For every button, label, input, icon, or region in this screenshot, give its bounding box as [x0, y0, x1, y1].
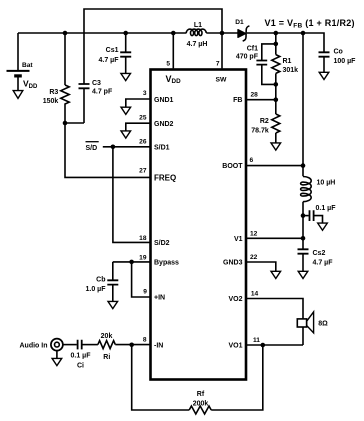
- wire R1 top stub: [275, 33, 277, 55]
- svg-text:18: 18: [139, 235, 147, 242]
- svg-text:9: 9: [143, 289, 147, 296]
- capacitor Cs2: [298, 238, 334, 271]
- svg-text:L1: L1: [194, 22, 202, 29]
- wire pin5 VDD stub: [172, 33, 174, 68]
- svg-text:200k: 200k: [193, 401, 209, 408]
- svg-text:Cb: Cb: [96, 277, 105, 284]
- svg-text:4.7 µF: 4.7 µF: [313, 259, 334, 266]
- wire VDD rail: [18, 32, 187, 34]
- svg-text:Audio In: Audio In: [20, 342, 48, 349]
- svg-text:11: 11: [253, 337, 260, 344]
- svg-text:Cs2: Cs2: [313, 250, 326, 257]
- resistor Rf: [189, 391, 211, 414]
- IC U1: [151, 70, 247, 380]
- wire battery drop: [17, 33, 19, 70]
- svg-text:301k: 301k: [283, 67, 299, 74]
- svg-text:100 µF: 100 µF: [334, 58, 357, 65]
- wire BOOT: [246, 165, 303, 167]
- capacitor Co: [319, 48, 357, 72]
- resistor R3: [43, 33, 69, 123]
- wire -IN pin: [115, 344, 150, 346]
- wire FB: [246, 99, 276, 101]
- svg-text:-IN: -IN: [154, 343, 163, 350]
- svg-text:V1 = VFB (1 + R1/R2): V1 = VFB (1 + R1/R2): [265, 18, 355, 30]
- capacitor C4 0.1uF: [303, 205, 336, 223]
- svg-text:+IN: +IN: [154, 295, 165, 302]
- wire feedback bottom: [132, 345, 263, 410]
- wire S/D1 to S/D2: [113, 147, 151, 243]
- ground below Cs1: [121, 73, 131, 80]
- svg-text:VO1: VO1: [228, 343, 242, 350]
- supply VDD arrow: [13, 79, 38, 99]
- wire GND1 pin: [126, 99, 151, 107]
- wire GND2 pin: [126, 123, 151, 131]
- resistor Ri: [98, 333, 115, 361]
- svg-text:FB: FB: [233, 97, 242, 104]
- svg-text:S/D1: S/D1: [154, 144, 170, 151]
- svg-text:8: 8: [143, 336, 147, 343]
- inductor L1: [186, 22, 238, 48]
- wire S/D1 pin: [103, 146, 151, 148]
- svg-text:8Ω: 8Ω: [318, 321, 328, 328]
- svg-text:26: 26: [139, 138, 147, 145]
- svg-text:4.7 pF: 4.7 pF: [92, 89, 113, 96]
- svg-text:R3: R3: [49, 89, 58, 96]
- svg-text:Cs1: Cs1: [106, 47, 119, 54]
- capacitor C3: [65, 80, 113, 123]
- svg-text:S/D: S/D: [86, 145, 98, 152]
- svg-text:0.1 µF: 0.1 µF: [316, 205, 337, 212]
- resistor R2: [251, 100, 280, 143]
- wire V1 pin: [246, 237, 303, 239]
- svg-text:22: 22: [250, 254, 258, 261]
- svg-text:FREQ: FREQ: [154, 173, 176, 182]
- svg-text:Bypass: Bypass: [154, 259, 179, 266]
- svg-text:28: 28: [251, 92, 259, 99]
- wire below L2: [302, 202, 304, 239]
- ground right of C4: [318, 223, 328, 230]
- junction dots: [63, 31, 68, 36]
- svg-text:R2: R2: [260, 118, 269, 125]
- svg-text:VO2: VO2: [228, 296, 242, 303]
- svg-text:4.7 µF: 4.7 µF: [99, 57, 120, 64]
- svg-text:0.1 µF: 0.1 µF: [71, 353, 92, 360]
- node S/D label: [86, 142, 99, 153]
- capacitor Cb: [86, 262, 119, 302]
- wire +IN pin: [132, 262, 151, 297]
- svg-text:Ci: Ci: [77, 362, 84, 369]
- inductor L2 10uH: [301, 177, 336, 202]
- svg-text:25: 25: [139, 115, 147, 122]
- svg-text:19: 19: [139, 254, 147, 261]
- svg-text:1.0 µF: 1.0 µF: [86, 286, 107, 293]
- svg-text:GND3: GND3: [223, 259, 243, 266]
- wire pin7 SW stub: [221, 33, 223, 68]
- svg-text:20k: 20k: [101, 333, 113, 340]
- svg-text:6: 6: [250, 157, 254, 164]
- resistor R1: [272, 55, 298, 100]
- wire VO2: [246, 299, 303, 346]
- svg-text:12: 12: [250, 230, 258, 237]
- wire output node: [247, 33, 324, 52]
- svg-text:C3: C3: [92, 80, 101, 87]
- svg-text:GND1: GND1: [154, 97, 174, 104]
- svg-text:Co: Co: [334, 48, 343, 55]
- diode D1 (Schottky): [235, 19, 249, 41]
- svg-text:7: 7: [216, 61, 220, 68]
- svg-text:Ri: Ri: [103, 354, 110, 361]
- svg-text:Rf: Rf: [197, 391, 205, 398]
- svg-text:470 pF: 470 pF: [236, 53, 259, 60]
- capacitor Cs1: [99, 33, 132, 73]
- svg-text:3: 3: [143, 90, 147, 97]
- capacitor Ci: [63, 340, 98, 370]
- svg-text:14: 14: [251, 291, 259, 298]
- svg-text:27: 27: [139, 168, 147, 175]
- speaker LS1: [297, 312, 328, 333]
- svg-text:SW: SW: [216, 77, 228, 84]
- ground below Co: [319, 72, 329, 79]
- svg-text:4.7 µH: 4.7 µH: [187, 41, 208, 48]
- wire GND3: [246, 262, 276, 271]
- ground below R2: [271, 143, 281, 150]
- ground GND1: [121, 107, 131, 114]
- wire VO1: [246, 344, 303, 346]
- svg-text:150k: 150k: [43, 98, 59, 105]
- svg-text:R1: R1: [283, 58, 292, 65]
- audio connector J1: [20, 339, 63, 351]
- svg-text:BOOT: BOOT: [222, 163, 243, 170]
- svg-text:Bat: Bat: [22, 62, 33, 69]
- ground below Cs2: [298, 271, 308, 278]
- ground GND3: [271, 271, 281, 278]
- wire boot vertical: [302, 33, 304, 176]
- svg-text:78.7k: 78.7k: [251, 128, 269, 135]
- ground below connector: [52, 351, 62, 366]
- ground GND2: [121, 131, 131, 138]
- capacitor Cf1: [236, 44, 276, 85]
- svg-text:Cf1: Cf1: [247, 45, 258, 52]
- svg-text:S/D2: S/D2: [154, 240, 170, 247]
- svg-text:5: 5: [166, 61, 170, 68]
- svg-text:GND2: GND2: [154, 121, 174, 128]
- wire SW top loop: [84, 9, 222, 84]
- svg-text:D1: D1: [235, 19, 244, 26]
- battery Bat: [7, 62, 34, 91]
- svg-text:10 µH: 10 µH: [317, 180, 336, 187]
- ground below Cb: [108, 301, 118, 308]
- wire FREQ net: [65, 123, 151, 177]
- svg-text:V1: V1: [234, 236, 243, 243]
- wire Bypass pin: [113, 261, 151, 263]
